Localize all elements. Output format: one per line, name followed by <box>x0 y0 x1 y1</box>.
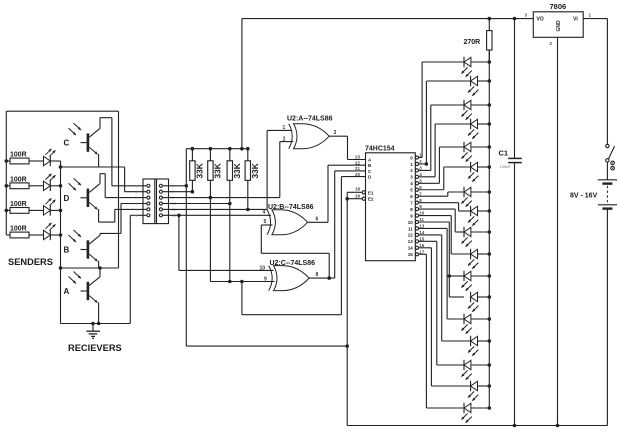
junction <box>345 344 349 348</box>
svg-text:19: 19 <box>355 194 361 199</box>
svg-text:8: 8 <box>316 272 319 278</box>
wire: U2:A output to pin A <box>329 135 347 137</box>
junction <box>98 266 102 270</box>
wire: +6V top rail <box>242 18 533 20</box>
wire: E1 enable <box>347 191 362 193</box>
op-amp U2:A 74LS86 <box>289 124 293 149</box>
wire: U2:B output to pin B <box>308 221 328 223</box>
svg-text:18: 18 <box>355 187 361 192</box>
svg-text:14: 14 <box>419 230 425 235</box>
pin 1 connector left <box>147 184 150 187</box>
svg-text:VI: VI <box>573 17 578 23</box>
svg-text:5: 5 <box>264 219 267 225</box>
junction <box>488 60 492 64</box>
op-amp U2:B 74LS86 <box>267 210 271 235</box>
junction <box>59 233 63 237</box>
junction <box>91 322 95 326</box>
svg-text:C1: C1 <box>499 149 509 158</box>
wire: D emitter <box>98 209 100 222</box>
svg-text:15: 15 <box>408 252 414 257</box>
wire: D collector <box>99 174 101 184</box>
wire: U2:C input 10 <box>178 215 180 270</box>
wire: output 3 to LED <box>419 176 436 178</box>
junction <box>488 165 492 169</box>
svg-text:33K: 33K <box>232 163 242 178</box>
svg-text:100nF: 100nF <box>500 164 512 169</box>
junction <box>425 162 429 166</box>
wire: 7806 VI <box>583 18 607 20</box>
junction <box>488 79 492 83</box>
svg-text:E2: E2 <box>368 197 374 202</box>
svg-text:33K: 33K <box>212 163 222 178</box>
wire: +6V drop <box>241 19 243 149</box>
LED D1 sender <box>44 156 51 165</box>
wire: bottom ground rail <box>347 425 607 427</box>
junction <box>488 190 492 194</box>
junction <box>97 322 101 326</box>
LED L4 <box>470 119 472 129</box>
wire: to pin C <box>334 171 336 278</box>
wire: 7806 GND <box>557 37 559 425</box>
wire: D signal to pin D <box>241 282 243 315</box>
junction <box>59 165 63 169</box>
LED L10 <box>470 249 472 259</box>
wire: A emitter <box>98 302 100 323</box>
svg-text:11: 11 <box>419 217 424 222</box>
svg-text:U2:B--74LS86: U2:B--74LS86 <box>268 204 314 211</box>
junction <box>556 424 560 428</box>
wire: output 8 to LED <box>419 208 456 210</box>
wire: U2:A input 1 <box>266 130 268 209</box>
junction <box>59 266 63 270</box>
wire: U2:B input 5 stub <box>261 224 272 226</box>
junction <box>191 190 195 194</box>
svg-text:3: 3 <box>334 130 337 136</box>
junction <box>191 147 195 151</box>
pin 7 connector right <box>159 184 162 187</box>
wire <box>247 180 249 209</box>
wire: output 4 to LED <box>419 182 440 184</box>
svg-text:GND: GND <box>556 20 562 32</box>
junction <box>488 122 492 126</box>
resistor R5 33K <box>191 149 193 161</box>
junction <box>488 295 492 299</box>
pin 5 connector left <box>147 208 150 211</box>
pin 4 connector left <box>147 202 150 205</box>
junction <box>5 184 9 188</box>
LED L11 <box>463 271 465 281</box>
wire <box>112 185 143 187</box>
pin 3 connector left <box>147 196 150 199</box>
transistor Q phototransistor C <box>87 133 90 151</box>
LED L2 <box>470 76 472 86</box>
wire <box>191 180 193 191</box>
svg-text:1: 1 <box>283 125 286 131</box>
svg-text:7806: 7806 <box>550 2 567 11</box>
junction <box>513 424 517 428</box>
svg-text:C: C <box>64 139 70 148</box>
LED L14 <box>470 336 472 346</box>
LED L6 <box>470 162 472 172</box>
svg-text:E1: E1 <box>368 190 374 195</box>
wire <box>186 345 347 347</box>
wire: output 1 to LED <box>419 163 427 165</box>
wire: output 11 to LED <box>419 227 448 229</box>
junction <box>59 184 63 188</box>
junction <box>513 17 517 21</box>
svg-text:15: 15 <box>419 236 425 241</box>
svg-text:U2:A--74LS86: U2:A--74LS86 <box>287 116 333 123</box>
junction <box>488 230 492 234</box>
LED L15 <box>463 360 465 370</box>
svg-text:14: 14 <box>408 246 414 251</box>
LED D3 sender <box>44 206 51 215</box>
junction <box>488 209 492 213</box>
pin 6 connector left <box>147 214 150 217</box>
svg-text:100R: 100R <box>10 201 27 208</box>
junction <box>488 103 492 107</box>
resistor R1 100R <box>6 160 10 162</box>
wire: output 5 to LED <box>419 189 444 191</box>
wire: output 15 to LED <box>419 253 427 255</box>
op-amp U2:C 74LS86 <box>269 266 273 291</box>
wire <box>125 191 143 193</box>
wire r3 <box>169 197 280 199</box>
wire: U2:C output <box>309 277 335 279</box>
svg-text:10: 10 <box>260 265 266 271</box>
svg-text:D: D <box>64 194 70 203</box>
LED L17 <box>463 403 465 413</box>
junction <box>228 147 232 151</box>
wire: A collector <box>99 268 101 277</box>
wire <box>51 185 61 187</box>
wire: B emitter <box>98 261 100 268</box>
wire: E2 enable <box>347 198 362 200</box>
junction <box>488 339 492 343</box>
battery BT1 8V-16V <box>598 179 617 181</box>
resistor R2 100R <box>6 185 10 187</box>
pin 12 connector right <box>159 214 162 217</box>
wire: U2:B input 5 feedback <box>260 225 262 253</box>
svg-text:A: A <box>64 287 70 296</box>
svg-text:8V - 16V: 8V - 16V <box>570 193 598 200</box>
svg-text:B: B <box>64 246 70 255</box>
pin 8 connector right <box>159 190 162 193</box>
wire row 3 <box>29 209 44 211</box>
wire <box>606 162 608 180</box>
LED D2 sender <box>44 181 51 190</box>
wire r2 <box>169 191 193 193</box>
wire: C emitter <box>98 154 100 167</box>
wire: r6 to ground <box>130 214 143 216</box>
wire row 4 <box>29 234 44 236</box>
wire <box>229 180 231 281</box>
pin 2 connector left <box>147 190 150 193</box>
wire: output 14 to LED <box>419 247 432 249</box>
wire: U2:C input 9 <box>210 281 274 283</box>
LED L3 <box>463 100 465 110</box>
junction <box>488 406 492 410</box>
svg-text:6: 6 <box>316 216 319 222</box>
wire: U2:A input 2 <box>279 142 281 198</box>
wire: senders top loop <box>6 110 118 112</box>
LED L7 <box>463 187 465 197</box>
svg-text:10: 10 <box>419 211 425 216</box>
svg-text:22: 22 <box>355 160 361 165</box>
wire: output 9 to LED <box>419 215 452 217</box>
wire r4 <box>169 203 230 205</box>
LED D4 sender <box>44 230 51 239</box>
junction <box>246 208 250 212</box>
junction <box>240 280 244 284</box>
svg-text:11: 11 <box>408 226 413 231</box>
wire: long vertical to enables <box>185 149 187 346</box>
svg-text:13: 13 <box>419 224 425 229</box>
wire <box>606 209 608 426</box>
transistor Q phototransistor D <box>87 189 90 207</box>
junction <box>228 280 232 284</box>
junction <box>246 147 250 151</box>
wire: LED cathode rail <box>60 161 62 324</box>
wire: output 6 to LED <box>419 195 448 197</box>
svg-text:SENDERS: SENDERS <box>8 257 53 267</box>
wire: senders left rail <box>5 111 7 235</box>
pin 9 connector right <box>159 196 162 199</box>
junction <box>209 196 213 200</box>
resistor R6 33K <box>209 149 211 161</box>
wire <box>51 234 61 236</box>
svg-text:100R: 100R <box>10 226 27 233</box>
wire r5 <box>169 208 268 210</box>
svg-text:16: 16 <box>419 243 425 248</box>
wire <box>51 160 61 162</box>
junction <box>327 276 331 280</box>
wire: output 7 to LED <box>419 202 459 204</box>
wire: output 13 to LED <box>419 240 437 242</box>
svg-text:13: 13 <box>408 239 414 244</box>
capacitor C1 100nF <box>514 19 516 159</box>
svg-text:21: 21 <box>355 166 361 171</box>
junction <box>209 147 213 151</box>
svg-text:100R: 100R <box>10 152 27 159</box>
regulator U3 7806 <box>533 12 583 38</box>
svg-text:23: 23 <box>355 155 361 160</box>
junction <box>5 209 9 213</box>
resistor R3 100R <box>6 209 10 211</box>
junction <box>5 159 9 163</box>
svg-text:74HC154: 74HC154 <box>365 146 395 153</box>
pin 11 connector right <box>159 208 162 211</box>
svg-text:20: 20 <box>355 172 361 177</box>
wire r1 to rail <box>169 185 187 187</box>
wire: C collector <box>99 118 101 129</box>
svg-text:RECIEVERS: RECIEVERS <box>68 343 122 353</box>
junction <box>177 214 181 218</box>
wire <box>209 180 211 281</box>
wire row 1 <box>29 160 44 162</box>
resistor R4 100R <box>6 234 10 236</box>
junction <box>228 202 232 206</box>
wire: output 10 to LED <box>419 221 450 223</box>
LED L5 <box>463 142 465 152</box>
wire <box>105 197 143 199</box>
LED L12 <box>470 292 472 302</box>
LED L8 <box>470 206 472 216</box>
LED L9 <box>463 227 465 237</box>
wire: receiver ground bus <box>61 323 131 325</box>
svg-text:10: 10 <box>408 220 414 225</box>
wire: pullup rail <box>186 148 248 150</box>
switch SW1 <box>606 144 609 147</box>
wire: B collector <box>99 233 101 235</box>
wire: output 2 to LED <box>419 169 431 171</box>
junction <box>59 209 63 213</box>
wire r6 <box>169 214 272 216</box>
LED L16 <box>470 381 472 391</box>
junction <box>345 197 349 201</box>
resistor R8 33K <box>247 149 249 161</box>
LED L1 <box>463 57 465 67</box>
junction <box>488 17 492 21</box>
svg-text:VO: VO <box>537 17 544 23</box>
junction <box>488 384 492 388</box>
junction <box>185 184 189 188</box>
wire: LED anode rail <box>488 50 490 408</box>
ground <box>92 324 94 332</box>
svg-text:17: 17 <box>419 249 425 254</box>
LED L13 <box>463 314 465 324</box>
connector J1 <box>143 179 169 224</box>
svg-text:33K: 33K <box>250 163 260 178</box>
pin 10 connector right <box>159 202 162 205</box>
wire <box>488 50 490 62</box>
wire: output 12 to LED <box>419 234 442 236</box>
wire: enables tie <box>346 192 348 425</box>
junction <box>488 363 492 367</box>
resistor R7 33K <box>229 149 231 161</box>
junction <box>488 317 492 321</box>
transistor Q phototransistor A <box>87 282 90 300</box>
IC U1 74HC154 <box>366 153 416 261</box>
resistor R9 270R <box>488 19 490 31</box>
transistor Q phototransistor B <box>87 240 90 258</box>
svg-text:33K: 33K <box>194 163 204 178</box>
svg-text:12: 12 <box>408 233 414 238</box>
junction <box>488 274 492 278</box>
svg-text:4: 4 <box>263 210 266 216</box>
svg-text:270R: 270R <box>464 39 481 46</box>
svg-text:U2:C--74LS86: U2:C--74LS86 <box>270 260 316 267</box>
junction <box>240 147 244 151</box>
svg-text:100R: 100R <box>10 176 27 183</box>
junction <box>488 145 492 149</box>
svg-text:9: 9 <box>264 277 267 283</box>
junction <box>448 274 452 278</box>
junction <box>488 252 492 256</box>
wire row 2 <box>29 185 44 187</box>
wire: output 0 to LED <box>419 157 423 159</box>
svg-text:2: 2 <box>283 136 286 142</box>
wire <box>51 209 61 211</box>
